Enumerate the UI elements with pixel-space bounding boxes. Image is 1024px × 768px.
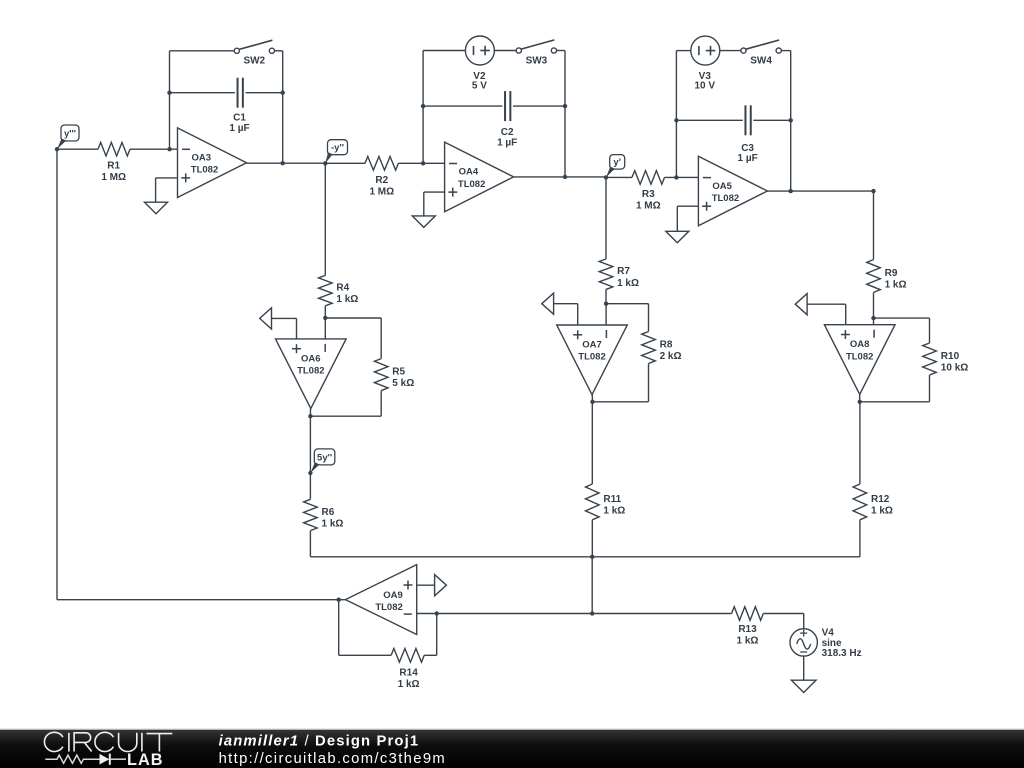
wire -y down to R9 [873,191,875,260]
wire OA9 plus stub [417,584,435,586]
wire V2 to SW3 [494,50,516,52]
wire -y'' down to R4 [324,163,326,275]
wire top to SW2 [170,50,235,52]
node flag y' [606,155,625,178]
wire corner down to cap line right stage2 [564,51,566,107]
wire R8 bottom to OA7 output [593,364,649,402]
svg-text:1 kΩ: 1 kΩ [336,294,358,305]
label R7 value [617,266,639,289]
svg-text:2 kΩ: 2 kΩ [660,351,682,362]
junction node y' [604,175,608,179]
voltage source V4 sine [790,629,817,656]
svg-text:TL082: TL082 [846,351,873,362]
resistor R5 [374,359,388,391]
wire R3 to OA5 minus input [665,176,699,178]
wire OA4 output [514,176,606,178]
wire C2 left lead [423,105,502,107]
capacitor C1 [238,78,243,108]
svg-text:TL082: TL082 [578,352,605,363]
resistor R9 [867,260,881,293]
wire feedback down [436,614,438,656]
svg-text:OA4: OA4 [459,167,479,178]
wire V3 to SW4 [720,50,741,52]
junction OA3 output feedback [281,161,285,165]
junction OA6 output [308,414,312,418]
svg-text:R3: R3 [642,189,655,200]
label R12 value [871,494,893,517]
wire R1 to OA3 minus input [130,148,178,150]
svg-text:5 kΩ: 5 kΩ [392,378,414,389]
wire R9 to OA8 junction [873,292,875,318]
op-amp OA8 [824,325,895,395]
svg-text:1 kΩ: 1 kΩ [885,280,907,291]
label C1 value [229,113,249,134]
svg-text:1 kΩ: 1 kΩ [737,636,759,647]
resistor R10 [923,343,937,375]
CircuitLab logo CIRCUIT [44,732,172,751]
wire feedback left vertical stage1 [169,51,171,149]
wire input y''' to R1 [57,148,98,150]
junction OA7 minus node [604,302,608,306]
svg-text:1 kΩ: 1 kΩ [617,278,639,289]
wire R4 to OA6 junction [324,306,326,318]
voltage source V3 [691,36,720,65]
resistor R8 [642,332,656,364]
junction OA4 output feedback [563,175,567,179]
wire OA5 plus input [677,206,698,231]
junction C2 left [421,104,425,108]
label R8 value [660,340,682,363]
svg-text:R7: R7 [617,266,630,277]
wire SW2 to corner [275,50,283,52]
junction feedback-left stage2 [421,161,425,165]
svg-text:1 kΩ: 1 kΩ [603,506,625,517]
voltage source V2 [465,36,494,65]
label R1 value [101,161,126,184]
wire top to V3 [676,50,690,52]
capacitor C3 [745,105,750,135]
wire SW3 to corner [557,50,566,52]
wire feedback right vertical stage2 [564,106,566,177]
wire R2 to OA4 minus input [398,162,444,164]
svg-text:1 kΩ: 1 kΩ [398,679,420,690]
net arrow OA6 plus [260,308,272,329]
CircuitLab logo LAB [127,751,163,768]
svg-text:10 kΩ: 10 kΩ [941,363,968,374]
wire OA3 output [247,162,326,164]
label R9 value [885,268,907,291]
junction C1 left [167,91,171,95]
junction feedback-left stage3 [674,175,678,179]
op-amp OA7 [557,325,628,395]
wire OA4 plus input [424,192,445,216]
net arrow OA7 plus [542,293,554,314]
wire OA9 minus to junction [417,613,437,615]
wire R11 to junction [591,520,593,557]
label R4 value [336,283,358,306]
svg-text:TL082: TL082 [458,179,485,190]
svg-text:y''': y''' [64,128,76,139]
svg-text:OA5: OA5 [712,181,732,192]
svg-text:R10: R10 [941,351,960,362]
wire y' down to R7 [605,177,607,259]
svg-text:1 MΩ: 1 MΩ [369,186,394,197]
wire top to V2 [423,50,465,52]
wire feedback bottom right lead [424,654,437,656]
resistor R14 [391,649,424,663]
svg-text:OA3: OA3 [192,153,212,164]
junction OA5 output feedback [789,189,793,193]
svg-text:R8: R8 [660,340,673,351]
junction node y''' [55,147,59,151]
svg-text:http://circuitlab.com/c3the9m: http://circuitlab.com/c3the9m [219,751,446,767]
junction OA7 output [590,400,594,404]
svg-text:TL082: TL082 [712,193,739,204]
svg-text:R2: R2 [375,175,388,186]
wire bottom to OA9 output [57,599,339,601]
net arrow OA9 plus [435,575,447,596]
resistor R4 [319,275,333,305]
junction C3 right [789,118,793,122]
wire C3 left lead [676,119,742,121]
wire OA9 output stub [339,599,346,601]
svg-text:10 V: 10 V [695,81,716,92]
svg-text:OA9: OA9 [383,590,403,601]
CircuitLab logo resistor-diode line [45,754,126,765]
svg-text:1 MΩ: 1 MΩ [101,172,126,183]
net arrow OA8 plus [795,294,807,315]
svg-text:SW2: SW2 [243,56,265,67]
wire 5y'' to R6 [309,473,311,499]
wire R12 to bottom rail [859,520,861,557]
op-amp OA5 [698,156,767,226]
label SW2 [243,56,265,67]
junction node -y'' [323,161,327,165]
label SW3 [526,56,548,67]
label R5 value [392,367,414,390]
svg-text:TL082: TL082 [191,165,218,176]
label R13 value [737,624,759,647]
svg-text:LAB: LAB [127,751,163,768]
svg-text:R14: R14 [399,667,418,678]
node flag 5y'' [310,449,334,473]
svg-text:R1: R1 [107,161,120,172]
capacitor C2 [505,91,510,121]
resistor R13 [732,607,764,621]
svg-text:OA6: OA6 [301,353,321,364]
junction OA9 output [337,598,341,602]
svg-text:OA8: OA8 [850,339,870,350]
svg-text:R4: R4 [336,283,349,294]
ground OA3 [145,202,168,214]
label R11 value [603,494,625,517]
resistor R12 [853,484,867,520]
label R3 value [636,189,661,212]
svg-text:5y'': 5y'' [317,452,332,463]
label R14 value [398,667,420,690]
svg-text:1 µF: 1 µF [229,123,249,134]
junction OA9 feedback [435,611,439,615]
wire feedback right vertical stage3 [790,120,792,191]
wire OA7 minus stub [605,304,607,325]
label C3 value [737,143,757,164]
label V2 value [472,71,487,92]
wire OA6 minus stub [324,318,326,339]
junction node -y [871,189,875,193]
wire feedback left vertical stage2 [422,51,424,164]
resistor R3 [632,171,665,185]
svg-text:TL082: TL082 [375,602,402,613]
wire arrow to OA8 plus input [807,304,846,325]
wire OA8 output stub [859,394,861,401]
svg-text:1 MΩ: 1 MΩ [636,201,661,212]
switch SW4 [741,40,781,53]
wire OA6 to R5 top [325,318,381,359]
wire bottom rail right [592,556,860,558]
op-amp OA3 [178,128,247,198]
label R6 value [322,507,344,530]
wire OA8 output down to R12 [859,402,861,484]
wire feedback right vertical stage1 [282,93,284,164]
svg-text:1 µF: 1 µF [737,153,757,164]
wire arrow to OA6 plus input [272,318,297,339]
wire OA5 output [767,190,873,192]
op-amp OA6 [276,339,347,409]
label R2 value [369,175,394,198]
junction R13 node [590,611,594,615]
svg-text:1 kΩ: 1 kΩ [322,519,344,530]
svg-text:1 kΩ: 1 kΩ [871,506,893,517]
label C2 value [497,127,517,148]
svg-text:ianmiller1 / Design Proj1: ianmiller1 / Design Proj1 [219,733,420,749]
wire y''' left vertical [56,149,58,600]
svg-text:R6: R6 [322,507,335,518]
wire OA7 to R8 top [606,304,648,332]
wire OA8 to R10 top [874,318,930,343]
node flag y''' [57,125,79,149]
op-amp OA4 [445,142,514,212]
ground V4 [791,680,816,692]
wire R13 to V4 [763,614,803,629]
wire OA7 output down to R11 [591,402,593,484]
junction bottom rail R11 [590,555,594,559]
switch SW2 [234,40,274,53]
wire y' to R3 [606,176,632,178]
svg-text:SW4: SW4 [750,56,772,67]
wire C1 left lead [170,92,235,94]
junction C3 left [674,118,678,122]
wire R10 bottom to OA8 output [860,375,930,402]
junction node 5y'' [308,471,312,475]
wire R6 to bottom rail [310,531,592,557]
svg-text:R12: R12 [871,494,890,505]
wire OA7 output stub [591,395,593,402]
svg-text:R13: R13 [738,624,757,635]
wire C3 right lead [753,119,790,121]
junction OA8 output [858,400,862,404]
junction C2 right [563,104,567,108]
svg-text:R9: R9 [885,268,898,279]
svg-text:SW3: SW3 [526,56,548,67]
footer bar [0,729,1024,768]
resistor R7 [599,259,613,289]
wire corner down to cap line right stage1 [282,51,284,93]
wire arrow to OA7 plus input [554,304,578,325]
wire OA6 output stub [309,409,311,417]
resistor R6 [304,499,318,530]
resistor R11 [586,484,600,520]
footer title text [219,733,446,767]
wire feedback bottom left lead [339,600,391,656]
svg-text:318.3 Hz: 318.3 Hz [822,648,862,659]
wire corner down to cap line right stage3 [790,51,792,121]
wire V4 to ground [803,656,805,680]
label SW4 [750,56,772,67]
wire C2 right lead [513,105,565,107]
node flag -y'' [325,140,347,164]
svg-text:5 V: 5 V [472,81,487,92]
switch SW3 [516,40,556,53]
svg-text:-y'': -y'' [331,143,344,154]
svg-text:OA7: OA7 [582,340,602,351]
wire C1 right lead [246,92,283,94]
label V4 value [822,628,862,660]
resistor R2 [365,157,398,171]
ground OA4 [412,216,435,228]
resistor R1 [98,142,130,156]
svg-text:y': y' [613,157,621,168]
svg-text:R11: R11 [603,494,621,505]
wire OA8 minus stub [873,318,875,325]
wire R7 to OA7 junction [605,289,607,303]
wire feedback left vertical stage3 [675,51,677,178]
svg-text:TL082: TL082 [297,366,324,377]
wire OA6 output down to 5y'' [309,416,311,473]
label V3 value [695,71,716,92]
svg-text:R5: R5 [392,367,405,378]
wire OA9 minus wire to R13 [437,613,732,615]
wire OA3 plus input [156,178,178,202]
op-amp OA9 [345,565,416,635]
svg-text:1 µF: 1 µF [497,137,517,148]
wire R5 bottom to OA6 output [310,391,381,417]
junction OA8 minus node [871,316,875,320]
junction OA6 minus node [323,316,327,320]
wire R11 junction down [591,557,593,614]
junction feedback-left stage1 [167,147,171,151]
junction C1 right [281,91,285,95]
ground OA5 [666,231,689,243]
wire -y'' to R2 [325,162,365,164]
label R10 value [941,351,968,374]
wire SW4 to corner [781,50,790,52]
